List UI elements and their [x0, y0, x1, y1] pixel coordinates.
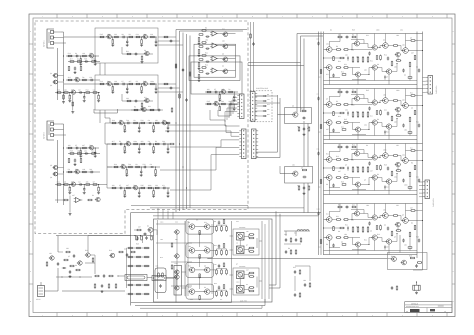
wires headers J1 up-fan: [233, 98, 237, 115]
capacitor cluster below protection box: [391, 286, 393, 287]
output stage vertical connects: [184, 221, 186, 296]
driver cell 1 vertical tie wires: [339, 34, 341, 42]
wires filter boards to bus: [158, 36, 176, 38]
output module M1 power device: [237, 246, 245, 254]
channel A stub parts: [68, 65, 70, 68]
filter A2 secondary row: [122, 94, 153, 101]
bias chain channel A upper: [66, 55, 99, 57]
psu wiring: [57, 236, 59, 252]
feedback chain channel A: [55, 92, 100, 94]
driver cell 1 extra bias parts: [337, 36, 340, 38]
driver cell 2 extra bias parts: [337, 91, 340, 93]
gain chain channel B: [66, 171, 100, 173]
output stage bottom bus wires: [131, 299, 232, 303]
driver cell 2 rail stub parts: [318, 97, 320, 98]
output module M2 power device: [237, 286, 245, 294]
wires from J2 to verticals: [255, 95, 278, 97]
output stage inner parallel rails: [157, 220, 159, 299]
driver cell 2 middle stage: [355, 96, 360, 101]
psu mid parts: [65, 251, 68, 253]
protection circuit parts: [392, 257, 397, 262]
driver cell 2 wires: [332, 104, 335, 106]
sheet inner border frame: [33, 18, 452, 313]
output module M1 power device: [237, 233, 245, 241]
right edge connector J11: [425, 180, 430, 199]
wires psu to output board: [56, 235, 154, 237]
horizontal wires opamps to right board: [248, 62, 301, 64]
psu relay RL1: [125, 275, 147, 281]
driver cell 3 input transistors: [327, 157, 333, 163]
vertical feed wires to right board top: [296, 34, 298, 113]
muting circuit cluster at board corner: [148, 228, 153, 233]
wires cells down to protection box: [399, 235, 401, 253]
wires from channel B stage to chains: [100, 184, 107, 186]
protection circuit box outline: [388, 253, 428, 270]
border zone ticks bottom: [56, 313, 58, 317]
regulator box Q31: [285, 167, 313, 184]
output inductor: [284, 230, 310, 232]
fan-out wires chains to headers: [168, 125, 239, 133]
output stage board outline: [154, 219, 273, 302]
driver cell 4 second pair: [372, 215, 377, 220]
small parts on filter-to-bus wires: [164, 36, 168, 38]
output network wires: [285, 231, 287, 236]
vertical wires left of regulators: [256, 95, 278, 152]
svg-text:INPUT B: INPUT B: [43, 131, 46, 139]
ribbon header J3: [242, 129, 247, 159]
output module M1 box: [233, 229, 259, 255]
driver cell 2 input transistors: [327, 102, 333, 108]
driver cell 3 wires: [332, 159, 335, 161]
bias chain channel A lower: [68, 61, 100, 63]
driver opamps U3 U4 U5 U6: [212, 31, 217, 36]
driver cell 2 second pair: [372, 100, 377, 105]
driver cell 3 output devices: [383, 153, 389, 159]
driver cell 2 rails: [324, 88, 423, 90]
gain chain channel A: [66, 79, 100, 81]
title block outline: [405, 302, 452, 313]
bias chain channel B upper: [66, 147, 99, 149]
output stage driver ladders: [216, 225, 218, 226]
output stage top bus wires: [131, 212, 321, 214]
driver cell 1 rail stub parts: [318, 42, 320, 43]
chain row 4 ground stub: [69, 196, 71, 213]
driver cell 2 vertical tie wires: [339, 89, 341, 97]
XLR input connector B: [47, 121, 54, 140]
mains connector J20: [38, 286, 45, 297]
border zone ticks left: [29, 43, 33, 45]
filter A2 bottom extension: [94, 109, 117, 113]
driver cell 3 rail stub parts: [318, 152, 320, 153]
ribbon header J4: [252, 129, 257, 159]
driver cell 4 middle stage: [355, 211, 360, 216]
filter A2 input wire: [64, 83, 98, 85]
preamp chain row 1: [110, 122, 168, 124]
svg-text:OUTPUT B: OUTPUT B: [432, 198, 435, 207]
border zone ticks right: [452, 43, 455, 45]
junction dots on buses: [63, 55, 64, 56]
driver cell 3 extra bias parts: [337, 146, 340, 148]
output module M2 vertical join: [239, 279, 241, 286]
feedback loop rectangles: [194, 44, 236, 77]
wires opamp block down to headers: [210, 110, 240, 126]
output network parts: [285, 238, 287, 239]
vertical wires above J2: [250, 22, 252, 92]
regulator box Q30: [285, 108, 312, 124]
inter-board cluster: [131, 109, 163, 111]
channel B input wires vertical run: [61, 124, 64, 205]
output module M2 box: [233, 268, 259, 295]
right vertical wires from output stage: [269, 211, 276, 285]
psu filter cluster: [50, 256, 54, 260]
regulator Q30 stub parts: [298, 126, 300, 129]
driver cell 4 wires: [332, 219, 335, 221]
driver cell 4 rails: [324, 203, 423, 205]
driver cell 3 vertical tie wires: [339, 144, 341, 152]
svg-text:INPUT A: INPUT A: [43, 40, 46, 47]
bus stub parts: [175, 63, 177, 66]
output stage horizontal ties: [156, 223, 185, 225]
filter A1 input wire: [64, 36, 98, 38]
driver cell 4 vertical tie wires: [339, 204, 341, 212]
vertical signal bus wires: [175, 30, 177, 213]
driver cell 4 output devices: [383, 213, 389, 219]
driver cell 4 rail stub parts: [318, 212, 320, 213]
driver cell 1 second pair: [372, 45, 377, 50]
wire output stage to protection box: [207, 258, 387, 260]
bias servo box left: [155, 268, 166, 293]
output module M1 vertical join: [239, 240, 241, 246]
driver cell 1 input transistors: [327, 47, 333, 53]
driver cell 1 middle stage: [355, 41, 360, 46]
output stage mid transistors: [175, 230, 179, 234]
output module M2 power device: [237, 271, 245, 279]
output board outer boundary: [130, 213, 132, 306]
driver cell 3 second pair: [372, 155, 377, 160]
connector J10 wires into board: [423, 77, 426, 79]
ribbon header J1: [240, 94, 245, 119]
driver cell 1 output devices: [383, 43, 389, 49]
ribbon header J2 control bus: [251, 92, 256, 122]
svg-text:OUTPUT A: OUTPUT A: [435, 85, 438, 94]
title block rows: [405, 304, 452, 306]
right board left rail wires: [318, 32, 320, 256]
XLR input connector A: [47, 29, 54, 48]
driver cell 3 rails: [324, 143, 423, 145]
muting cluster wires: [134, 229, 137, 231]
output power transistor grid: [186, 219, 214, 234]
driver cell 1 wires: [332, 49, 335, 51]
channel B buffer opamp U2: [76, 198, 81, 203]
preamp chain row 3: [112, 166, 160, 168]
preamp chain row 2: [110, 143, 170, 145]
driver cell 3 middle stage: [355, 151, 360, 156]
emitter resistor array: [129, 247, 133, 249]
right board right rail wires: [416, 32, 418, 259]
psu relay RL2: [152, 276, 166, 281]
driver cell 1 rails: [324, 33, 423, 35]
connector J11 wires into board: [419, 181, 423, 183]
filter A2 main chain: [98, 83, 156, 85]
svg-text:VERSUS: VERSUS: [411, 303, 419, 306]
driver cell 2 output devices: [383, 98, 389, 104]
filter A1 main chain: [98, 36, 156, 38]
psu extra wires: [56, 276, 92, 278]
bias chain channel B lower: [68, 153, 100, 155]
input pair cluster channel A Q1 Q2: [54, 74, 58, 78]
psu regulator Q50: [110, 253, 115, 258]
regulator Q31 stub parts: [298, 185, 300, 188]
vertical bus wires center-right: [303, 124, 305, 167]
filter sub-board A2 outline: [95, 75, 158, 110]
bias box wires: [166, 277, 174, 279]
preamp chain row 4: [110, 187, 170, 189]
chain row interconnect wires: [105, 123, 110, 144]
zobel network above title block: [413, 285, 420, 290]
filter boards interconnect verticals: [99, 63, 101, 75]
input pair cluster channel B Q5 Q6: [54, 166, 58, 170]
bus drops into output board: [157, 208, 159, 219]
svg-text:CONTROL BUS: CONTROL BUS: [256, 87, 269, 90]
driver cell 4 input transistors: [327, 217, 333, 223]
channel B stub parts: [68, 157, 70, 160]
opamp block lower cluster: [205, 91, 238, 93]
horizontal bus wires below dashed box: [131, 204, 248, 206]
psu small parts row: [94, 275, 97, 277]
filter sub-board A1 outline: [95, 28, 158, 63]
driver cell 4 extra bias parts: [337, 206, 340, 208]
right edge connector J10: [428, 76, 433, 95]
bias sensor box with transistors: [174, 266, 182, 296]
feedback chain channel B: [55, 184, 100, 186]
border zone ticks top: [56, 14, 58, 18]
dashed input board enclosure outline: [35, 21, 248, 234]
control bus dashed box with diodes: [250, 91, 272, 122]
filter A1 secondary row: [122, 47, 153, 54]
channel A input wires vertical run: [61, 32, 64, 100]
channel A ground stub: [63, 94, 65, 97]
bus top horizontal feed wires: [176, 29, 247, 31]
